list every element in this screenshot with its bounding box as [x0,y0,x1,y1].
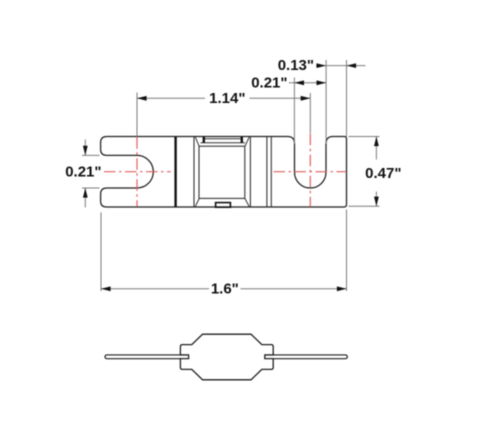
extension line A (right slot left edge) [293,78,295,145]
left 0.21" extension line top [82,154,100,156]
window bevel diagonal bottom-left [195,199,199,207]
window bevel diagonal top-left [195,137,199,147]
red centerline vertical right slot [309,134,311,207]
dimension 0.21" top arrow left (tip at A pointing left) [294,80,304,85]
dimension 0.21" top arrow right (tip at B pointing right) [317,80,327,85]
left 0.21" arrow bottom (pointing up) [83,188,88,198]
right 0.47" arrow bottom (pointing down) [374,197,379,207]
fuse element window inner rect [199,146,245,198]
bottom 1.6" arrow right (pointing right) [337,286,347,291]
side view right blade [265,355,348,359]
right 0.47" arrow top (pointing up) [374,137,379,147]
dimension 1.14" line left part [137,97,205,99]
bottom 1.6" extension line left [100,212,102,291]
side view left blade [105,355,189,359]
left 0.21" dim line above [84,140,86,156]
window bevel diagonal top-right [245,137,249,147]
top clip end bar right [241,137,243,143]
svg-text:1.6": 1.6" [211,280,239,297]
fuse body outline (top view) [101,137,347,208]
right 0.47" extension line bottom [349,205,380,207]
top clip horizontal lines [203,138,243,140]
right 0.47" dim line bottom [375,192,377,207]
housing line right A [266,137,268,208]
left 0.21" dim line below [84,188,86,208]
dimension 0.21" top line [289,82,326,84]
svg-text:0.13": 0.13" [278,57,314,74]
extension line D (left slot center, above body) [136,93,138,137]
bottom 1.6" arrow left (pointing left) [101,286,111,291]
top clip end bar left [203,137,205,143]
dimension 0.13" arrow right (outside, pointing left at C) [347,63,357,68]
bottom 1.6" dim line left [101,288,209,290]
housing thick edge line left [174,137,176,208]
bottom tab [216,203,231,208]
bottom 1.6" extension line right [346,210,348,292]
dimension 0.13" line [316,65,347,67]
housing line right B [270,137,272,208]
dimension 0.13" arrow left (outside, pointing right at B) [317,63,327,68]
dimension 1.14" arrow right (tip at E pointing right) [301,96,311,101]
red centerline horizontal right segment [274,171,346,173]
window frame outer left edge [193,137,195,208]
extension line B (right slot right edge) [325,60,327,144]
extension line C (body right edge, above) [346,60,348,136]
svg-text:0.21": 0.21" [65,163,101,180]
svg-text:0.47": 0.47" [365,165,401,182]
svg-text:0.21": 0.21" [251,74,287,91]
red centerline horizontal left segment [104,171,171,173]
svg-text:1.14": 1.14" [209,90,245,107]
dimension 1.14" arrow left (tip at D pointing left) [137,96,147,101]
side view fuse body octagon [180,334,273,380]
left 0.21" extension line bottom [82,187,100,189]
bottom 1.6" dim line right [241,288,347,290]
red centerline vertical left slot [136,137,138,206]
window frame outer right edge [249,137,251,208]
window bevel diagonal bottom-right [245,199,249,207]
right 0.47" dim line top [375,137,377,160]
extension line E (right slot center, above body) [309,93,311,134]
dimension 1.14" line right part [250,97,311,99]
right 0.47" extension line top [349,136,380,138]
left 0.21" arrow top (pointing down) [83,146,88,156]
